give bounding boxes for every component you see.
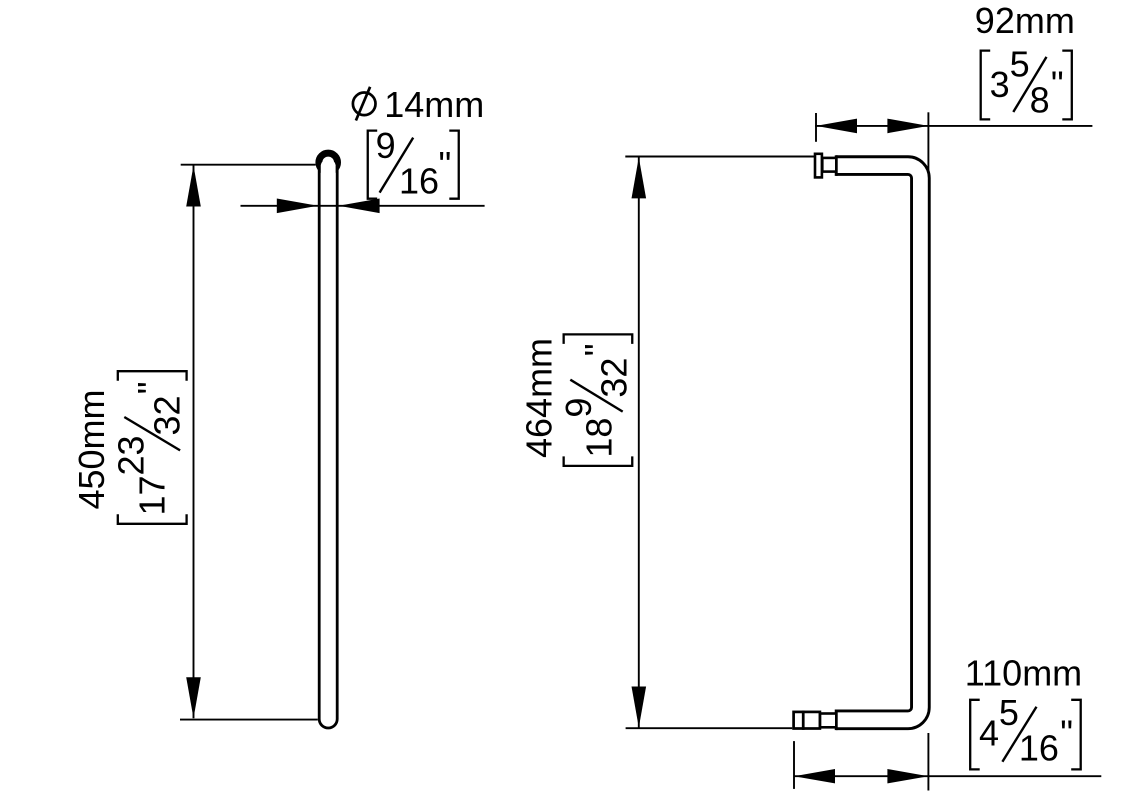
svg-text:16: 16 (399, 160, 439, 201)
92 ext right (927, 112, 929, 170)
464 arrow down (632, 687, 647, 728)
svg-text:9: 9 (558, 398, 599, 418)
110 ext left (793, 741, 795, 789)
92 arrow left (816, 119, 857, 134)
bar left outline (318, 166, 321, 719)
bottom flange box1 (794, 712, 804, 729)
dia dimension line (241, 205, 485, 207)
svg-text:450mm: 450mm (71, 389, 112, 509)
svg-text:18: 18 (579, 418, 620, 458)
bar body white fill (321, 159, 336, 726)
tube black (836, 166, 920, 720)
464 arrow up (632, 157, 647, 198)
dia arrow left (pointing right) (277, 199, 318, 214)
arrow up (186, 166, 201, 207)
diameter symbol (353, 93, 376, 116)
dia arrow right (pointing left) (339, 199, 380, 214)
tube bottom end cap (835, 710, 838, 731)
svg-text:8: 8 (1030, 79, 1050, 120)
464 extension top (625, 156, 814, 158)
110 dim line (794, 775, 1101, 777)
110 arrow left (794, 769, 835, 783)
bar right outline (336, 166, 339, 719)
svg-text:14mm: 14mm (384, 84, 484, 125)
top flange (815, 154, 822, 178)
svg-text:5: 5 (1010, 43, 1030, 84)
svg-text:32: 32 (146, 395, 187, 435)
bracket 3 5/8in (981, 43, 1072, 120)
92 dim line (815, 125, 1092, 127)
bottom flange box2 (803, 712, 820, 729)
svg-text:": " (1060, 713, 1073, 754)
arrow down (186, 677, 201, 718)
464 dimension line (638, 157, 640, 727)
svg-text:17: 17 (131, 475, 172, 515)
extension line bottom (180, 719, 318, 721)
svg-text:110mm: 110mm (965, 652, 1082, 693)
110 arrow right (887, 769, 928, 783)
svg-text:9: 9 (376, 125, 396, 166)
tube white inner (836, 166, 920, 720)
svg-text:3: 3 (990, 64, 1010, 105)
bracket 18 9/32in rotated (558, 334, 635, 466)
svg-text:": " (1051, 63, 1064, 104)
svg-text:92mm: 92mm (975, 0, 1075, 41)
top collar (822, 158, 836, 172)
svg-text:4: 4 (979, 713, 999, 754)
svg-text:32: 32 (594, 358, 635, 398)
svg-text:": " (577, 343, 618, 356)
92 ext left (815, 113, 817, 142)
bottom collar (820, 714, 836, 728)
bar top cap ring (319, 153, 338, 172)
dimension line 450mm (193, 166, 195, 719)
bracket 4 5/16in (970, 692, 1080, 769)
92 arrow right (887, 119, 928, 134)
extension line top (181, 164, 316, 166)
svg-text:5: 5 (999, 692, 1019, 733)
110 ext right (927, 733, 929, 791)
svg-text:": " (130, 382, 171, 395)
svg-text:16: 16 (1019, 727, 1059, 768)
svg-text:": " (439, 144, 452, 185)
svg-text:464mm: 464mm (519, 338, 560, 458)
464 extension bottom (626, 727, 793, 729)
tube top end cap (835, 155, 838, 176)
bracket 17 23/32in rotated (110, 371, 187, 524)
svg-text:23: 23 (110, 435, 151, 475)
bracket 9/16in (368, 125, 459, 202)
bar bottom cap (319, 719, 337, 728)
